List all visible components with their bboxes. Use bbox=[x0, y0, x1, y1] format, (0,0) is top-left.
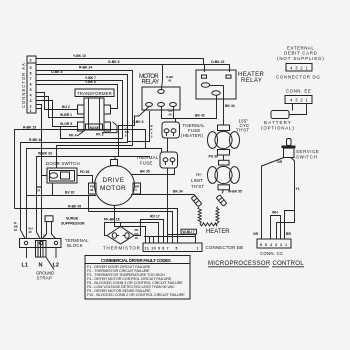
thermal fuse motor component bbox=[136, 152, 178, 168]
svg-text:6 5 4 3 2 1: 6 5 4 3 2 1 bbox=[260, 243, 287, 247]
door switch S1 bbox=[46, 161, 80, 183]
svg-text:L1: L1 bbox=[22, 263, 29, 269]
wire BK 35 bbox=[131, 168, 175, 175]
wire fuse chain bbox=[167, 138, 169, 152]
wire motor neutral to conn BB bbox=[115, 206, 146, 237]
svg-text:BLOCK: BLOCK bbox=[67, 243, 83, 248]
wire branch bbox=[277, 211, 295, 240]
transformer T1 bbox=[69, 89, 130, 138]
svg-text:W-OR 5: W-OR 5 bbox=[60, 122, 72, 126]
connector CC bbox=[257, 239, 291, 256]
wire Y-BK 6 bbox=[36, 85, 118, 109]
svg-text:CONNECTOR DG: CONNECTOR DG bbox=[276, 75, 320, 80]
svg-text:5: 5 bbox=[176, 247, 178, 251]
heater relay K2 bbox=[196, 70, 265, 99]
connector BB bbox=[143, 243, 243, 252]
svg-text:THERMAL: THERMAL bbox=[136, 155, 159, 160]
microprocessor control label bbox=[208, 261, 304, 267]
wire PD 36 bbox=[77, 176, 93, 184]
wire BU 2 bbox=[36, 93, 78, 110]
wire R-BK 24 bbox=[36, 71, 133, 169]
wire W-BK 33 bbox=[37, 157, 151, 239]
svg-text:3: 3 bbox=[30, 99, 32, 103]
connector EE bbox=[285, 89, 312, 104]
heater element coil bbox=[198, 207, 219, 227]
svg-text:57: 57 bbox=[43, 234, 47, 238]
svg-text:DEBIT CARD: DEBIT CARD bbox=[284, 51, 317, 56]
svg-text:W-BK 33: W-BK 33 bbox=[38, 152, 52, 156]
svg-text:R-BK 40: R-BK 40 bbox=[29, 138, 42, 142]
svg-text:BK 35: BK 35 bbox=[140, 170, 150, 174]
wire BV 32 bbox=[53, 183, 97, 196]
svg-text:RELAY: RELAY bbox=[241, 78, 262, 84]
svg-text:CONNECTOR BB: CONNECTOR BB bbox=[206, 245, 244, 250]
svg-text:36: 36 bbox=[90, 188, 94, 192]
svg-text:1: 1 bbox=[30, 109, 32, 113]
wire PU 38 bbox=[223, 155, 225, 160]
svg-text:MICROPROCESSOR CONTROL: MICROPROCESSOR CONTROL bbox=[208, 261, 304, 267]
wire R-BK 45 bbox=[15, 209, 178, 237]
wire Y-BK 10 bbox=[36, 59, 230, 73]
svg-text:O-BK 6: O-BK 6 bbox=[132, 120, 144, 124]
svg-text:WH: WH bbox=[272, 211, 278, 215]
wire to door switch bbox=[36, 105, 47, 176]
svg-text:THERMISTOR: THERMISTOR bbox=[103, 246, 140, 251]
wire R-BK 15 bbox=[15, 130, 146, 209]
svg-text:SURGE: SURGE bbox=[66, 217, 79, 221]
heater insulator right bbox=[216, 195, 227, 206]
svg-text:5: 5 bbox=[30, 88, 32, 92]
heater insulator left bbox=[191, 195, 202, 206]
terminal L1 bbox=[26, 248, 28, 259]
svg-text:7: 7 bbox=[30, 77, 32, 81]
svg-text:R-BK 15: R-BK 15 bbox=[23, 126, 36, 130]
svg-text:9: 9 bbox=[30, 66, 32, 70]
svg-text:W-BR 1: W-BR 1 bbox=[60, 113, 72, 117]
svg-text:R-BK 45: R-BK 45 bbox=[68, 205, 81, 209]
svg-text:6: 6 bbox=[30, 83, 32, 87]
wire PK-BK 18 bbox=[105, 223, 159, 237]
wire W-BU 7 bbox=[168, 235, 196, 244]
svg-text:0: 0 bbox=[30, 59, 32, 63]
svg-text:O-BK 8: O-BK 8 bbox=[51, 70, 63, 74]
thermal fuse heater component bbox=[162, 122, 205, 138]
svg-text:COMMERCIAL DRYER FAULT CODES: COMMERCIAL DRYER FAULT CODES bbox=[101, 258, 171, 263]
svg-text:OR: OR bbox=[277, 160, 283, 164]
svg-text:(NOT SUPPLIED): (NOT SUPPLIED) bbox=[277, 56, 324, 61]
wire YL bbox=[285, 158, 295, 240]
wire motor relay long to BK42 junction bbox=[173, 107, 175, 119]
svg-text:W-BU 7: W-BU 7 bbox=[183, 230, 195, 234]
ground strap bbox=[46, 257, 54, 270]
svg-text:YL: YL bbox=[296, 187, 300, 191]
svg-text:SERVICE: SERVICE bbox=[296, 149, 319, 154]
svg-text:BV 32: BV 32 bbox=[65, 191, 75, 195]
wire BK 34 bbox=[131, 195, 196, 198]
wire comb bus into conn BB bbox=[144, 236, 195, 238]
svg-text:DRIVE: DRIVE bbox=[103, 177, 125, 184]
svg-text:W-BK 55: W-BK 55 bbox=[228, 190, 242, 194]
svg-text:BK 44: BK 44 bbox=[225, 104, 235, 108]
wire fuse to conn BB bbox=[167, 168, 169, 237]
wire W-OR 5 bbox=[36, 101, 78, 127]
wire W-BK 55 bbox=[222, 190, 224, 194]
svg-text:BK 42: BK 42 bbox=[195, 114, 205, 118]
svg-text:LIMIT: LIMIT bbox=[191, 178, 203, 183]
svg-text:SWITCH: SWITCH bbox=[296, 155, 317, 160]
svg-text:(HEATER): (HEATER) bbox=[181, 133, 203, 138]
wire G-BK 5 bbox=[36, 65, 205, 73]
terminal block bbox=[20, 238, 90, 257]
svg-text:HEATER: HEATER bbox=[206, 229, 230, 235]
svg-text:R-BK 24: R-BK 24 bbox=[79, 66, 92, 70]
battery B1 bbox=[261, 104, 307, 131]
fault codes table bbox=[85, 256, 190, 300]
wire BK 40 bbox=[128, 111, 150, 142]
svg-text:57: 57 bbox=[37, 189, 41, 193]
svg-text:8: 8 bbox=[30, 72, 32, 76]
svg-text:BU 2: BU 2 bbox=[62, 105, 70, 109]
svg-text:CONN. EE: CONN. EE bbox=[286, 89, 311, 94]
svg-text:O-BK 43: O-BK 43 bbox=[211, 60, 224, 64]
hi-limit thermostat bbox=[191, 160, 240, 190]
motor relay K1 bbox=[139, 74, 180, 110]
wire OR service to conn CC bbox=[262, 158, 285, 240]
svg-text:N: N bbox=[39, 263, 43, 269]
wire BR 46 bbox=[89, 212, 173, 237]
thermistor RT1 bbox=[103, 227, 140, 251]
wire to door switch leg bbox=[36, 109, 42, 239]
svg-text:PK 4: PK 4 bbox=[69, 134, 77, 138]
svg-text:F10 - BLOCKED CONN 2 OR CONTRO: F10 - BLOCKED CONN 2 OR CONTROL CIRCUIT … bbox=[87, 293, 185, 297]
svg-text:4 3 2 1: 4 3 2 1 bbox=[290, 98, 308, 103]
external debit card text bbox=[277, 46, 324, 62]
svg-text:TH'ST: TH'ST bbox=[236, 128, 249, 133]
wire WH staple bbox=[271, 216, 281, 240]
svg-text:Y-BK 6: Y-BK 6 bbox=[85, 80, 96, 84]
svg-text:PK-BK 18: PK-BK 18 bbox=[104, 218, 120, 222]
svg-text:PU 38: PU 38 bbox=[209, 154, 219, 158]
svg-text:BR: BR bbox=[286, 232, 291, 236]
svg-text:BASE: BASE bbox=[90, 126, 100, 130]
svg-text:HI-: HI- bbox=[196, 172, 203, 177]
wire branch to motor relay coil bbox=[162, 65, 163, 90]
svg-text:1: 1 bbox=[197, 247, 199, 251]
wire Y-BK 7 bbox=[36, 81, 123, 139]
terminal L2 bbox=[55, 248, 57, 259]
wire BK 44 bbox=[223, 86, 225, 126]
svg-text:42: 42 bbox=[14, 228, 18, 232]
svg-text:26: 26 bbox=[169, 113, 173, 117]
svg-text:MOTOR: MOTOR bbox=[100, 185, 126, 192]
svg-text:32: 32 bbox=[29, 230, 33, 234]
svg-text:DOOR SWITCH: DOOR SWITCH bbox=[46, 161, 80, 166]
svg-text:RD 17: RD 17 bbox=[150, 215, 160, 219]
svg-text:2: 2 bbox=[30, 105, 32, 109]
svg-text:CONN. CC: CONN. CC bbox=[260, 251, 283, 256]
connector DG bbox=[276, 64, 320, 80]
svg-text:RELAY: RELAY bbox=[142, 80, 160, 86]
svg-text:SUPPRESSOR: SUPPRESSOR bbox=[61, 222, 85, 226]
svg-text:L2: L2 bbox=[53, 263, 60, 269]
svg-text:43: 43 bbox=[168, 79, 172, 83]
svg-text:TRANSFORMER: TRANSFORMER bbox=[77, 91, 112, 96]
wire RD 17 bbox=[134, 220, 164, 237]
wire W-BR 1 bbox=[36, 97, 84, 118]
wire O-BK 8 / R-BK 40 bbox=[21, 75, 128, 239]
surge suppressor bbox=[43, 216, 86, 239]
svg-text:BATTERY: BATTERY bbox=[264, 120, 291, 125]
svg-text:CONNECTOR AA: CONNECTOR AA bbox=[21, 62, 26, 108]
svg-text:PD 36: PD 36 bbox=[80, 170, 90, 174]
svg-text:PK 3: PK 3 bbox=[96, 133, 104, 137]
wire to thermal fuse bbox=[26, 149, 145, 239]
service switch bbox=[282, 139, 320, 160]
svg-text:(OPTIONAL): (OPTIONAL) bbox=[261, 126, 294, 131]
svg-text:FUSE: FUSE bbox=[140, 160, 153, 165]
155 cycling thermostat bbox=[208, 119, 250, 156]
svg-text:11 10 9 8 7: 11 10 9 8 7 bbox=[145, 247, 169, 251]
drive motor M1 bbox=[89, 160, 141, 206]
svg-text:Y-BK 10: Y-BK 10 bbox=[73, 54, 86, 58]
svg-text:4: 4 bbox=[30, 94, 32, 98]
wire motor relay to BK42 run bbox=[162, 107, 176, 119]
svg-text:TH'ST: TH'ST bbox=[191, 184, 204, 189]
svg-text:BK 34: BK 34 bbox=[173, 190, 183, 194]
svg-text:OR: OR bbox=[253, 232, 259, 236]
wire O-BK 6 bbox=[119, 107, 149, 157]
svg-text:G-BK 5: G-BK 5 bbox=[108, 60, 120, 64]
svg-text:18: 18 bbox=[135, 236, 139, 240]
connector AA bbox=[21, 56, 36, 113]
svg-text:STRAP: STRAP bbox=[37, 276, 53, 281]
wire BK 42 bbox=[176, 95, 217, 122]
svg-text:4 3 2 1: 4 3 2 1 bbox=[290, 65, 308, 70]
